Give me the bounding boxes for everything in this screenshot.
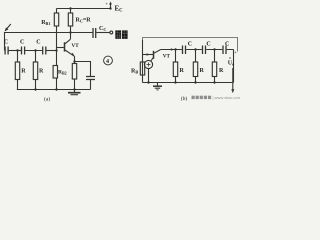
wire: bottom ground rail (a): [17, 89, 91, 91]
svg-text:C: C: [4, 40, 8, 46]
capacitor C3 (b): [223, 46, 226, 55]
svg-text:VT: VT: [72, 43, 80, 49]
resistor R1 (b): [175, 50, 177, 63]
+EC arrow: [110, 3, 112, 8]
svg-text:C: C: [206, 42, 210, 48]
node: collector junction: [69, 31, 71, 33]
Uo arrow: [232, 68, 234, 91]
svg-text:R: R: [219, 68, 224, 74]
capacitor C1 (b): [183, 46, 186, 55]
svg-text:R: R: [39, 69, 44, 75]
node: rail junction at RC: [69, 7, 71, 9]
svg-text:R: R: [21, 69, 26, 75]
resistor RC: [68, 13, 72, 26]
node: emitter node: [73, 60, 75, 62]
resistor RB: [140, 62, 144, 75]
node: rail dots: [34, 88, 36, 90]
svg-text:Uo: Uo: [228, 61, 234, 67]
circled 4: [104, 56, 113, 65]
label 输出: [115, 30, 127, 38]
svg-text:C: C: [225, 42, 229, 48]
capacitor C1: [5, 47, 8, 55]
capacitor C2: [22, 47, 25, 55]
wire: collector to output cap: [71, 32, 93, 34]
wire: RB1 top stub: [56, 9, 58, 14]
svg-text:RB2: RB2: [58, 70, 67, 76]
capacitor C2 (b): [203, 46, 206, 55]
svg-text:4: 4: [106, 58, 109, 65]
wire: base wire with arrow: [143, 54, 154, 56]
svg-text:R: R: [200, 68, 205, 74]
capacitor CC: [93, 28, 96, 38]
source circle +: [144, 60, 152, 68]
svg-text:(b): (b): [181, 95, 188, 102]
resistor R1: [17, 51, 19, 63]
svg-text:RB1: RB1: [41, 20, 50, 26]
svg-text:CC: CC: [99, 26, 106, 32]
ground (a): [74, 90, 76, 93]
wire: emitter to bypass cap: [75, 62, 91, 77]
label watermark: [192, 95, 242, 100]
wire: collector rail (b): [161, 49, 234, 51]
wire: feedback line collector to ladder input: [5, 33, 71, 51]
svg-text:| www.dzsc.com: | www.dzsc.com: [213, 95, 241, 100]
wire: top supply rail: [57, 8, 111, 10]
resistor RB2: [56, 51, 58, 66]
resistor RB1: [54, 13, 58, 26]
resistor R2: [35, 51, 37, 63]
svg-text:RB: RB: [131, 69, 138, 75]
wire: bottom rail (b): [143, 82, 234, 84]
node: +EC terminal dot: [109, 7, 111, 9]
svg-text:+: +: [234, 51, 237, 56]
svg-text:R: R: [180, 68, 185, 74]
node: ladder junction 1: [16, 49, 18, 51]
node dots on (b) bottom rail: [147, 81, 149, 83]
node: ladder junction 2: [34, 49, 36, 51]
wire: RB1 bottom to base node: [56, 26, 58, 51]
capacitor C3: [43, 47, 46, 55]
svg-text:RC=R: RC=R: [76, 18, 92, 24]
feedback direction arrow: [6, 24, 11, 30]
wire: RC top stub: [70, 9, 72, 14]
wire: output right side: [233, 50, 235, 83]
svg-text:VT: VT: [163, 54, 171, 60]
resistor R2 (b): [195, 50, 197, 63]
capacitor CE: [86, 77, 95, 80]
wire: left rail (b): [142, 40, 144, 83]
wire: RC bottom to collector: [70, 26, 72, 39]
node: output terminal circle: [110, 31, 113, 34]
dot of Uo phasor: [229, 57, 230, 58]
wire: emitter down: [74, 56, 76, 64]
node: ladder junction base: [55, 49, 57, 51]
node dots on (b) top wire: [174, 48, 176, 50]
collector arrow: [171, 48, 174, 50]
svg-text:(a): (a): [44, 96, 50, 103]
resistor R3 (b): [214, 50, 216, 63]
svg-text:C: C: [188, 42, 192, 48]
svg-text:+: +: [105, 3, 108, 8]
transistor VT (b): [153, 51, 155, 59]
svg-text:C: C: [20, 40, 24, 46]
ground (b): [157, 83, 159, 86]
wire: CC to output terminal: [96, 32, 110, 34]
svg-text:C: C: [36, 40, 40, 46]
resistor RE: [72, 64, 76, 80]
wire: base wire from RB1 node: [57, 47, 64, 49]
